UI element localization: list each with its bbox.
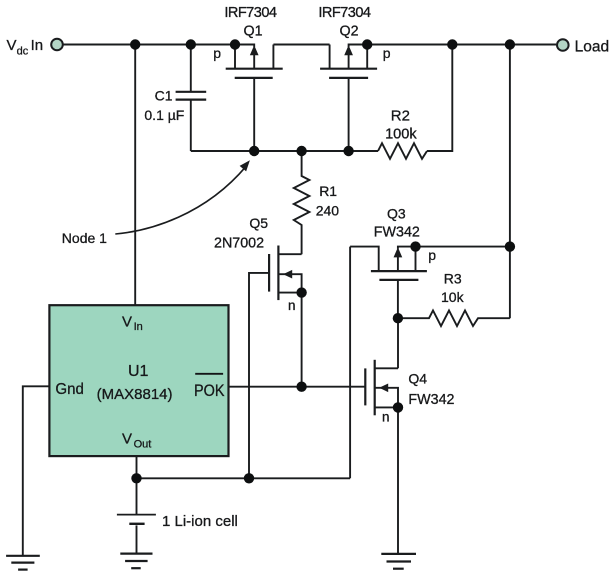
terminal Vdc In [51, 39, 63, 51]
svg-text:1 Li-ion cell: 1 Li-ion cell [162, 513, 238, 530]
Q2 source stub [366, 45, 368, 69]
node junction rail/Q1 drain [230, 39, 240, 49]
wire C1 bottom lead [190, 100, 192, 151]
wire top rail segment C (Q2 body tie to Load) [349, 45, 557, 48]
svg-text:In: In [31, 37, 44, 54]
svg-text:U1: U1 [128, 363, 149, 380]
resistor R2 [378, 143, 427, 159]
svg-text:IRF7304: IRF7304 [318, 5, 371, 21]
transistor Q4 (n-channel FW342) [365, 318, 398, 554]
wire Q3 gate down to R3 node [397, 280, 399, 318]
node 1 callout arrow [115, 166, 246, 234]
svg-text:R1: R1 [319, 183, 337, 199]
node junction VOut line/Q5 gate [244, 473, 254, 483]
node junction Q3 source stub [410, 241, 420, 251]
wire top rail segment A (Vdc In to Q1 body tie) [64, 45, 255, 48]
svg-text:10k: 10k [441, 289, 465, 305]
wire Q5 gate lead down to VOut node [249, 273, 269, 478]
battery B1 (1 Li-ion cell) [117, 478, 156, 553]
label VOut pin [122, 431, 151, 451]
svg-text:n: n [382, 410, 390, 425]
wire VOut pin lead [136, 456, 138, 478]
svg-text:IRF7304: IRF7304 [224, 5, 277, 21]
svg-text:POK: POK [194, 382, 225, 400]
node junction rail/VIn [130, 39, 140, 49]
Q1 channel bar [226, 68, 283, 70]
node junction Q3 rail/x510 [505, 241, 515, 251]
svg-text:240: 240 [316, 202, 340, 218]
Q5 gate bar [268, 254, 270, 292]
node junction rail/x510 [505, 39, 515, 49]
Q3 drain rail from x350 vertical [350, 247, 379, 272]
Q3 source rail (body tie to x510 vertical) [398, 247, 510, 249]
svg-text:In: In [134, 321, 143, 333]
label Vdc In [7, 37, 44, 57]
Q5 body arrow [278, 274, 301, 292]
ground (left, Gnd pin) [6, 556, 40, 570]
node junction Q3 gate/R3/Q4 drain [393, 313, 403, 323]
svg-text:dc: dc [17, 45, 29, 57]
Q3 source stub [415, 247, 417, 272]
svg-text:(MAX8814): (MAX8814) [97, 386, 173, 403]
svg-text:FW342: FW342 [374, 225, 420, 241]
Q2 gate bar [329, 77, 368, 79]
battery positive plate [117, 514, 156, 516]
ground (battery) [120, 554, 152, 569]
svg-text:Load: Load [575, 39, 609, 56]
Q2 body arrow [348, 54, 350, 69]
svg-text:Q3: Q3 [387, 205, 406, 221]
wire R2 right lead up to rail [427, 45, 452, 152]
svg-text:n: n [288, 298, 296, 313]
node junction bus/R1 [296, 146, 306, 156]
Q5 source stub [278, 292, 301, 294]
label POK pin with overline [194, 374, 225, 400]
Q3 gate bar [379, 279, 418, 281]
capacitor C1 [176, 92, 207, 100]
Q4 channel bar [374, 360, 376, 416]
svg-text:FW342: FW342 [408, 392, 454, 408]
node junction bus/Q2 gate [343, 146, 353, 156]
Q4 body arrow [375, 388, 398, 408]
svg-text:V: V [7, 37, 17, 54]
Q1 drain stub [234, 45, 236, 69]
svg-text:Q5: Q5 [249, 215, 268, 231]
transistor Q3 (p-channel FW342) [350, 247, 510, 319]
svg-text:Out: Out [134, 438, 152, 450]
wire x350 vertical (VOut node up to Q3 drain rail) [349, 247, 351, 479]
wire VOut node line to x350 vertical [137, 477, 351, 479]
transistor Q1 (p-channel IRF7304) [226, 45, 283, 152]
svg-text:V: V [122, 431, 132, 448]
Q1 source stub [272, 45, 274, 69]
Q3 channel bar [371, 270, 427, 272]
wire C1 top lead [190, 45, 192, 92]
wire Q5 source down to POK node [301, 293, 303, 387]
Q3 body arrow [397, 256, 399, 271]
node junction POK/Q5 [296, 382, 306, 392]
svg-text:0.1 µF: 0.1 µF [144, 107, 184, 123]
terminal Load [557, 39, 569, 51]
svg-text:C1: C1 [155, 88, 173, 104]
label VIn pin [122, 313, 143, 333]
Q1 gate bar [235, 77, 273, 79]
battery negative plate [129, 523, 144, 525]
wire Vin vertical (top rail to U1 VIn pin) [134, 45, 136, 306]
node junction rail/Q2 source [362, 39, 372, 49]
wire top rail segment B (Q1 source to Q2 drain) [273, 44, 329, 46]
svg-text:Q2: Q2 [339, 24, 358, 40]
Q2 channel bar [320, 68, 377, 70]
wire Q2 gate to bus [348, 78, 350, 151]
svg-text:V: V [122, 313, 132, 330]
battery bottom lead [136, 525, 138, 553]
Q4 source stub [375, 406, 398, 408]
node 1 junction bus/Q1 gate [249, 146, 259, 156]
transistor Q2 (p-channel IRF7304) [320, 45, 377, 152]
Q5 channel bar [277, 246, 279, 301]
Q4 gate bar [364, 368, 366, 405]
IC U1 MAX8814 box [49, 305, 228, 456]
wire right vertical x510 (rail to R3) [509, 45, 511, 319]
svg-text:2N7002: 2N7002 [214, 236, 264, 252]
node junction Q4 source [393, 402, 403, 412]
wire Gnd pin lead [23, 386, 50, 556]
resistor R3 [398, 310, 510, 326]
svg-text:Gnd: Gnd [55, 381, 84, 398]
wire node-1 bus [191, 150, 378, 152]
svg-text:Q1: Q1 [243, 24, 262, 40]
node junction Q5 source [296, 287, 306, 297]
wire Q4 source down to ground [397, 407, 399, 554]
svg-text:Node 1: Node 1 [62, 230, 107, 246]
node junction VOut/battery [131, 473, 141, 483]
svg-text:100k: 100k [385, 127, 417, 143]
transistor Q5 (n-channel 2N7002) [249, 246, 302, 479]
Q1 body arrow [253, 54, 255, 69]
wire POK line (U1 to Q4 gate) [229, 386, 366, 388]
svg-text:p: p [213, 45, 221, 61]
Q2 drain stub [329, 45, 331, 69]
wire Q4 drain up to R3 node [397, 318, 399, 368]
Q5 drain stub [278, 253, 301, 255]
wire Q1 gate to bus [253, 78, 255, 151]
svg-text:R3: R3 [444, 271, 462, 287]
node junction rail/R2 [447, 39, 457, 49]
node junction rail/C1 [186, 39, 196, 49]
resistor R1 [294, 151, 310, 254]
svg-text:R2: R2 [391, 107, 410, 124]
battery top lead [136, 478, 138, 514]
svg-text:p: p [383, 45, 391, 61]
svg-text:Q4: Q4 [408, 371, 427, 387]
ground (Q4 source) [381, 554, 416, 569]
svg-text:p: p [428, 247, 436, 263]
Q4 drain stub [375, 367, 398, 369]
